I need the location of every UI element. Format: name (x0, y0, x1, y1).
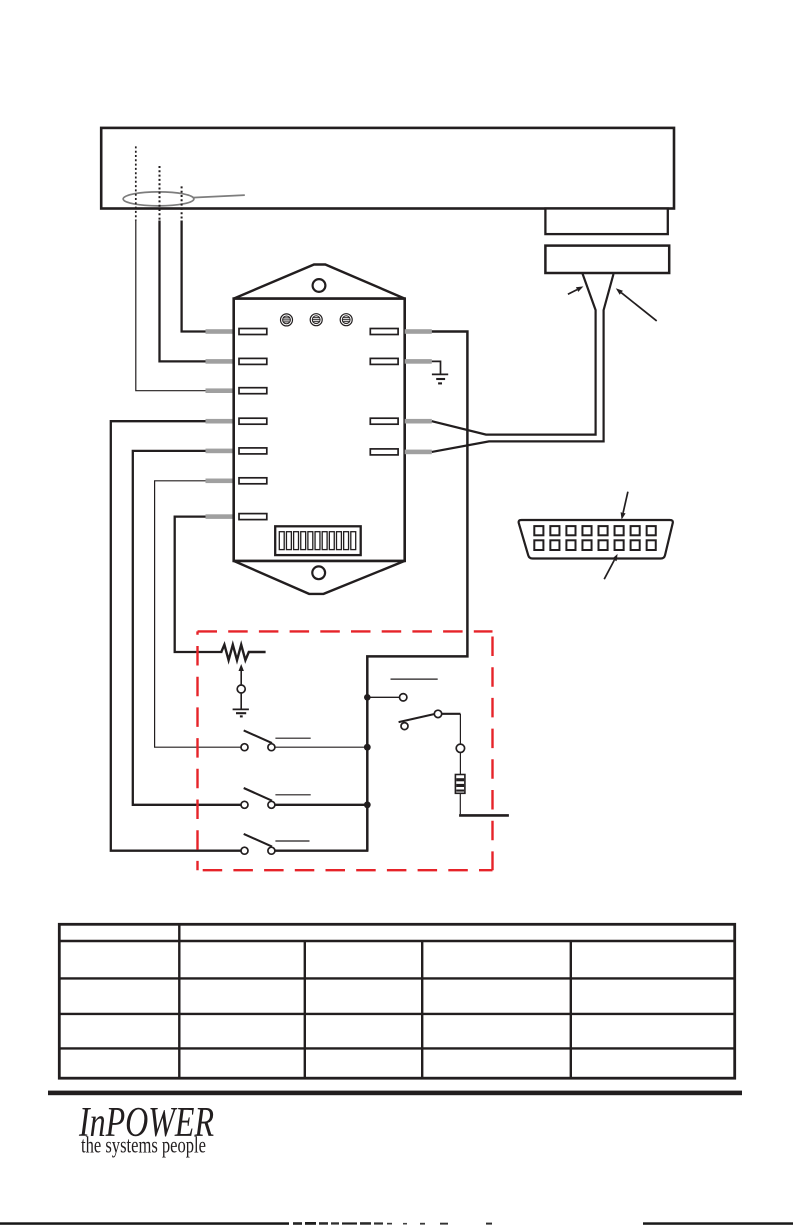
resistor top node circle (456, 744, 464, 752)
wire to terminal L3 (136, 221, 207, 391)
settings table (59, 924, 734, 1078)
wire terminal L6 to switch SW1 (155, 481, 242, 747)
DIP switch block (275, 526, 361, 555)
gray stub R3 (405, 419, 432, 424)
wiper node circle (237, 685, 245, 693)
wire to terminal L1 (182, 221, 207, 332)
module bottom mounting hole (312, 566, 325, 579)
connector block A (545, 209, 667, 235)
terminal L6 (239, 478, 267, 484)
terminal R1 (370, 329, 398, 335)
terminal R2 (370, 358, 398, 364)
footer rule (48, 1091, 742, 1096)
ground symbol below wiper (233, 693, 249, 716)
terminal L3 (239, 388, 267, 394)
label underline SW3 (275, 840, 309, 842)
red dashed option box (198, 631, 493, 870)
resistor R1 body (455, 775, 465, 794)
wire relay to resistor node (442, 714, 461, 744)
vehicle harness box (101, 128, 674, 209)
dotted wire segment 2 (159, 166, 161, 221)
wire terminal L4 to switch SW3 (111, 421, 241, 851)
wire resistor to output (459, 793, 509, 815)
switch SW2 (241, 788, 275, 808)
wire terminal R4 to connector block B (432, 274, 614, 452)
loom ellipse (123, 192, 245, 206)
svg-text:the systems people: the systems people (81, 1133, 206, 1159)
label underline SW1 (275, 737, 310, 739)
wire terminal R1 to bus (367, 332, 467, 851)
OBD diagnostic connector (519, 520, 673, 559)
junction dot bus node C (364, 801, 371, 808)
stub wire to open terminal (367, 696, 399, 698)
gray stub L4 (206, 419, 235, 424)
switch SW1 (241, 730, 275, 750)
screw S1 (281, 314, 293, 326)
terminal L2 (239, 358, 267, 364)
gray stub R1 (405, 329, 432, 334)
junction dot bus node B (364, 744, 371, 751)
gray stub R2 (405, 359, 432, 364)
potentiometer zigzag (221, 645, 265, 661)
module body (234, 299, 405, 561)
OBD pin row 2 (534, 540, 655, 550)
gray stub L2 (206, 359, 235, 364)
gray stub L6 (206, 479, 235, 484)
ground symbol at terminal R2 (432, 361, 448, 383)
screw S2 (310, 314, 322, 326)
potentiometer wiper arrow (239, 664, 244, 685)
dotted wire segment 1 (135, 146, 137, 220)
screw S3 (340, 314, 352, 326)
arrow to OBD bottom (604, 554, 617, 579)
terminal L5 (239, 448, 267, 454)
wire node to resistor (459, 753, 461, 775)
arrow to OBD top (621, 492, 628, 520)
arrow to right funnel wire (616, 288, 657, 321)
module bottom flange (234, 561, 405, 594)
scan noise strip (0, 1222, 793, 1225)
terminal L7 (239, 514, 267, 520)
relay switch lower contact (401, 723, 408, 730)
dotted wire segment 3 (181, 186, 183, 220)
wire terminal L7 to potentiometer (175, 517, 223, 652)
gray stub L5 (206, 449, 235, 454)
junction dot bus node A (364, 694, 371, 701)
wire SW2 to bus (275, 804, 369, 806)
connector block B (545, 246, 669, 273)
gray stub L1 (206, 329, 235, 334)
wire terminal L5 to switch SW2 (133, 451, 241, 805)
terminal L4 (239, 418, 267, 424)
gray stub L3 (206, 388, 235, 393)
wire SW3 to bus (275, 850, 369, 852)
module top mounting hole (313, 279, 326, 292)
gray stub L7 (206, 514, 235, 519)
relay switch upper contact (434, 710, 441, 717)
terminal R4 (370, 449, 398, 455)
wire to terminal L2 (160, 221, 207, 362)
OBD pin row 1 (534, 526, 655, 535)
label underline SW2 (275, 794, 310, 796)
gray stub R4 (405, 450, 432, 455)
open terminal circle (400, 694, 407, 701)
switch SW3 (241, 834, 275, 854)
wire terminal R3 to connector block B (432, 274, 596, 435)
terminal L1 (239, 329, 267, 335)
terminal R3 (370, 418, 398, 424)
wire SW1 to bus (275, 746, 369, 748)
arrow to left funnel wire (568, 286, 584, 294)
module top flange (234, 265, 405, 299)
label underline open terminal (391, 678, 438, 680)
relay switch lever (399, 714, 434, 722)
